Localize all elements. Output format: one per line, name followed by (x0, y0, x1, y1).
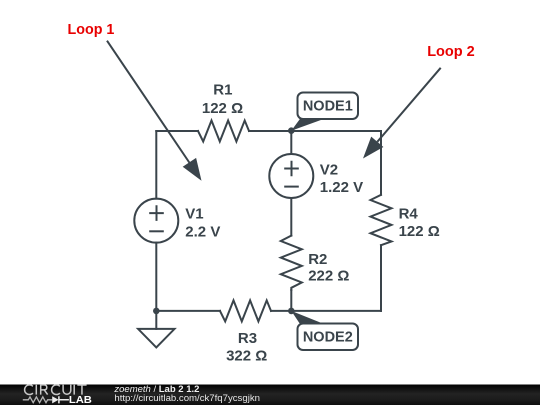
ground symbol (138, 329, 174, 348)
svg-text:V2: V2 (320, 161, 338, 178)
voltage source V2 circle (269, 154, 313, 198)
wire: top rail right segment (R1 to right corner) (249, 130, 381, 132)
svg-text:122 Ω: 122 Ω (202, 100, 243, 117)
wire: middle branch (V2 to R2) (290, 198, 292, 236)
CircuitLab logo word CIRCUIT (thin custom letters) (25, 385, 87, 395)
annotation Loop 1 arrowhead (183, 158, 202, 181)
node NODE1 box (298, 93, 359, 120)
wire: left rail upper (corner to V1) (155, 131, 157, 199)
wire: bottom rail right segment (R3 to bottom-right corner) (271, 310, 381, 312)
CircuitLab logo resistor squiggle (23, 397, 52, 403)
svg-text:322 Ω: 322 Ω (226, 348, 267, 365)
node NODE1 callout pointer (291, 119, 324, 131)
CircuitLab logo diode (52, 396, 58, 403)
svg-text:V1: V1 (185, 205, 203, 222)
wire: middle branch top (node1 to V2) (290, 131, 292, 154)
voltage source V1 circle (134, 199, 178, 243)
svg-text:R4: R4 (399, 205, 419, 222)
annotation Loop 2 arrowhead (363, 137, 383, 159)
resistor R2 (281, 236, 302, 290)
V1 minus sign (149, 230, 164, 232)
junction node dot at NODE2 (288, 308, 295, 315)
wire: right rail upper (corner to R4) (380, 131, 382, 195)
svg-text:Loop 1: Loop 1 (68, 22, 115, 38)
resistor R4 (371, 195, 392, 245)
svg-text:R1: R1 (213, 82, 232, 99)
svg-text:2.2 V: 2.2 V (185, 223, 220, 240)
V2 minus sign (284, 186, 299, 188)
footer bar (0, 385, 540, 405)
V1 plus sign (149, 205, 164, 221)
junction node dot at NODE1 (288, 127, 295, 134)
annotation Loop 2 arrow line (377, 68, 440, 142)
svg-text:http://circuitlab.com/ck7fq7yc: http://circuitlab.com/ck7fq7ycsgjkn (114, 393, 260, 404)
svg-text:122 Ω: 122 Ω (399, 223, 440, 240)
svg-text:222 Ω: 222 Ω (308, 268, 349, 285)
wire: left rail lower (V1 to bottom junction) (155, 243, 157, 311)
annotation Loop 1 arrow line (107, 41, 192, 167)
svg-text:R2: R2 (308, 251, 327, 268)
wire: bottom rail left segment (junction to R3) (156, 310, 220, 312)
wire: right rail lower (R4 to bottom corner) (380, 245, 382, 311)
junction node dot at bottom-left (153, 308, 160, 315)
svg-text:1.22 V: 1.22 V (320, 179, 363, 196)
wire: top rail left segment (corner to R1) (156, 130, 198, 132)
svg-text:Loop 2: Loop 2 (427, 44, 475, 60)
resistor R1 (198, 121, 249, 142)
node NODE2 callout pointer (291, 311, 324, 324)
svg-text:NODE1: NODE1 (303, 99, 353, 115)
svg-text:LAB: LAB (69, 395, 92, 405)
V2 plus sign (284, 161, 299, 177)
svg-text:NODE2: NODE2 (303, 330, 353, 346)
wire: middle branch bottom (R2 to node2) (290, 290, 292, 311)
svg-text:R3: R3 (238, 330, 257, 347)
resistor R3 (220, 300, 271, 321)
node NODE2 box (298, 324, 359, 351)
wire: ground stem (155, 311, 157, 329)
